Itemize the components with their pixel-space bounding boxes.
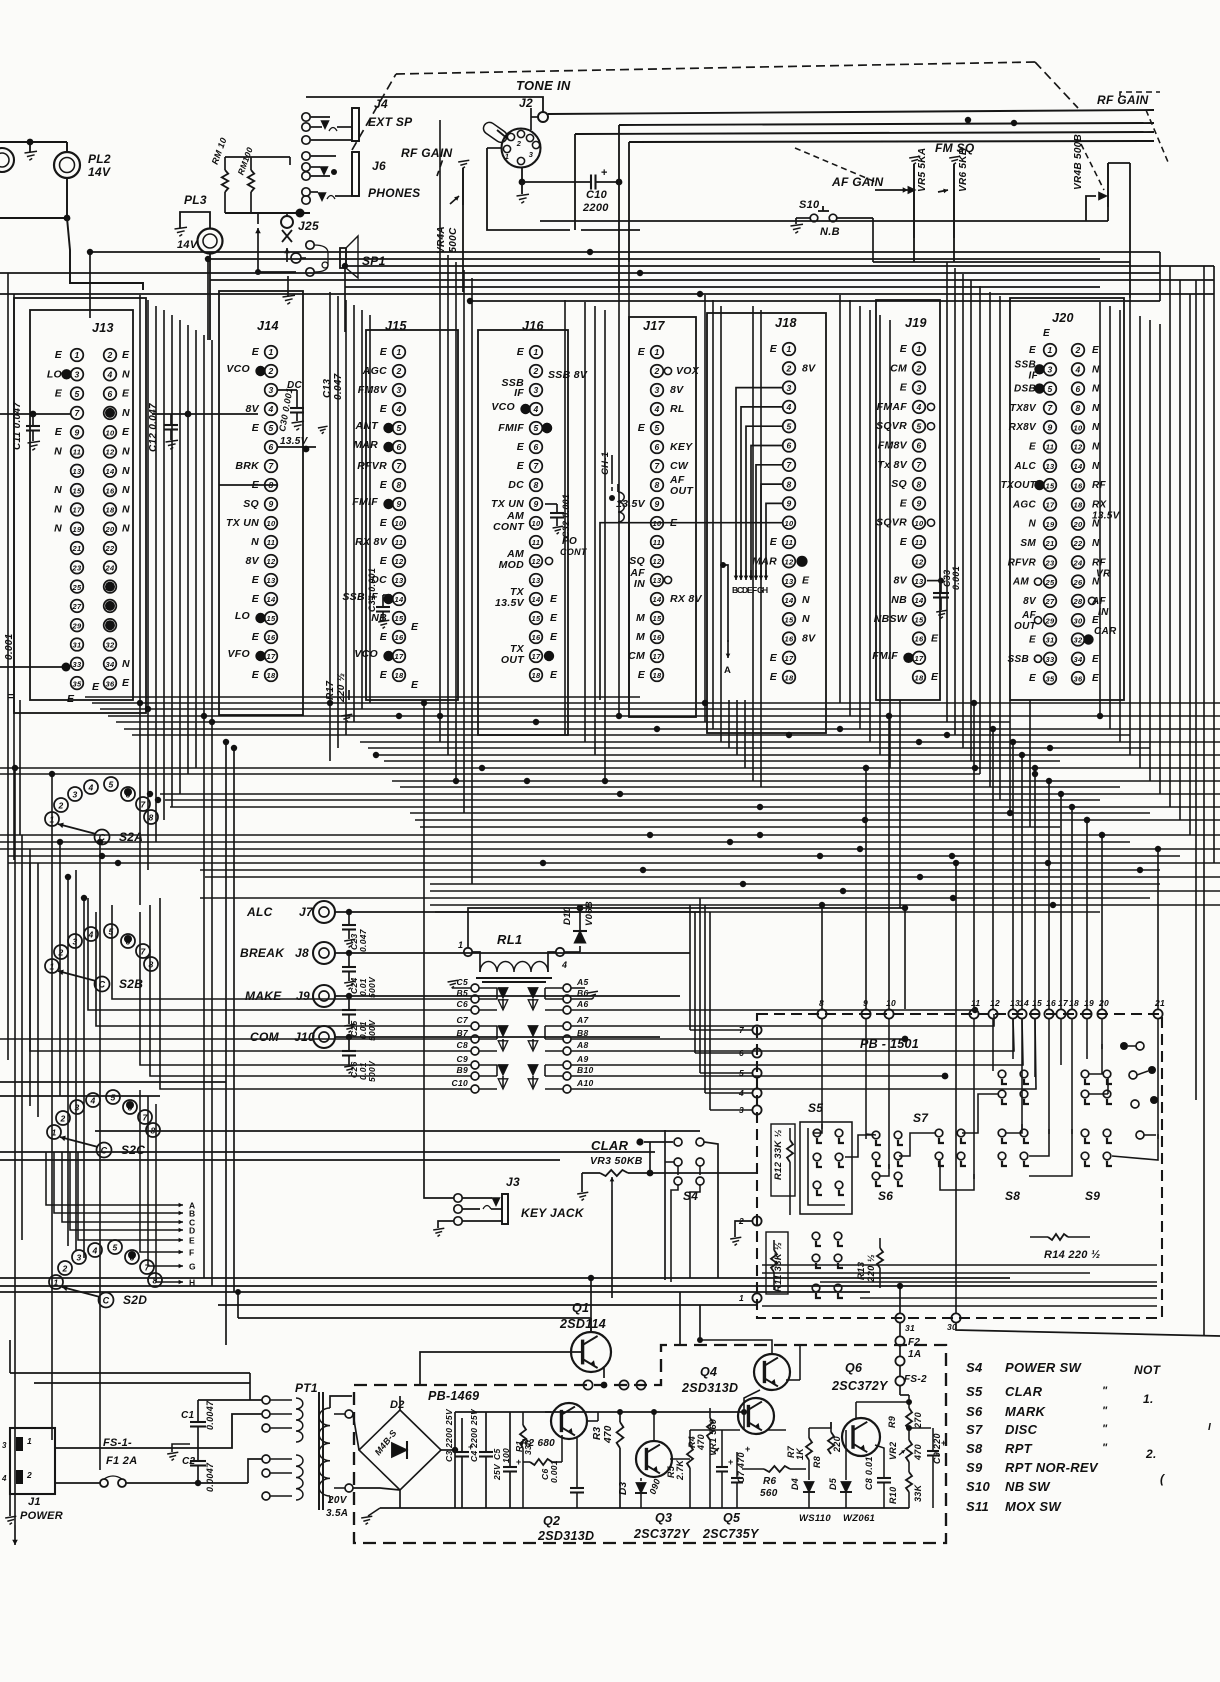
svg-text:16: 16	[1046, 998, 1056, 1008]
svg-text:S8: S8	[1005, 1189, 1020, 1203]
ground	[571, 998, 592, 1000]
svg-text:1: 1	[916, 344, 921, 354]
wire	[468, 908, 580, 947]
svg-text:N: N	[251, 536, 259, 548]
wire verticals between connectors	[139, 295, 141, 905]
svg-text:15: 15	[785, 615, 794, 624]
svg-text:S5: S5	[966, 1384, 983, 1399]
svg-text:1: 1	[739, 1293, 744, 1303]
capacitor C24	[335, 952, 690, 954]
svg-text:+: +	[516, 1457, 522, 1467]
svg-text:3: 3	[916, 383, 921, 393]
svg-text:DC: DC	[508, 479, 524, 491]
svg-text:J7: J7	[299, 905, 314, 919]
svg-text:VR2: VR2	[888, 1442, 898, 1460]
svg-text:E: E	[1043, 328, 1050, 339]
capacitor C26	[335, 1036, 660, 1038]
wire	[0, 1081, 226, 1083]
svg-text:": "	[1102, 1405, 1108, 1417]
svg-text:8V: 8V	[670, 384, 684, 396]
svg-text:RX8V: RX8V	[1009, 422, 1037, 433]
svg-text:8V: 8V	[246, 403, 260, 415]
svg-text:CAR: CAR	[1094, 626, 1117, 637]
svg-text:C12 0.047: C12 0.047	[148, 403, 159, 452]
svg-text:6: 6	[129, 1253, 134, 1263]
rotary switch S2B	[45, 959, 59, 973]
svg-text:25: 25	[1045, 578, 1055, 587]
svg-text:C8: C8	[457, 1040, 468, 1050]
svg-text:A9: A9	[576, 1054, 588, 1064]
svg-text:5: 5	[533, 423, 538, 433]
svg-text:RPT NOR-REV: RPT NOR-REV	[1005, 1460, 1099, 1475]
svg-text:VR6 5KB: VR6 5KB	[958, 148, 969, 192]
svg-text:30: 30	[1074, 616, 1083, 625]
svg-text:5: 5	[654, 423, 659, 433]
svg-text:1A: 1A	[908, 1349, 921, 1360]
svg-text:4: 4	[561, 960, 567, 970]
wire PB-1501 switch links	[813, 1124, 822, 1133]
svg-text:18: 18	[106, 506, 115, 515]
svg-text:6: 6	[125, 937, 130, 947]
svg-text:9: 9	[1047, 422, 1052, 432]
svg-text:18: 18	[1074, 501, 1083, 510]
connector J15	[366, 330, 458, 700]
svg-text:N: N	[1092, 403, 1100, 414]
svg-text:9: 9	[396, 499, 401, 509]
svg-text:3: 3	[786, 383, 791, 393]
svg-text:OUT: OUT	[670, 485, 694, 497]
svg-text:E: E	[1029, 635, 1036, 646]
svg-text:C7: C7	[457, 1015, 469, 1025]
wire bus band horizontal	[85, 696, 640, 698]
wire relay feed down	[904, 908, 906, 1009]
svg-text:R10: R10	[888, 1487, 898, 1504]
diode D10	[564, 951, 580, 953]
svg-text:1: 1	[458, 940, 463, 950]
svg-text:R14 220 ½: R14 220 ½	[1044, 1249, 1101, 1261]
svg-text:18: 18	[915, 673, 924, 682]
svg-text:A5: A5	[576, 977, 588, 987]
svg-text:32: 32	[1074, 636, 1083, 645]
svg-text:SSB 8V: SSB 8V	[548, 369, 588, 381]
wire	[306, 97, 543, 112]
svg-text:14: 14	[267, 595, 276, 604]
svg-text:4: 4	[1074, 365, 1080, 375]
svg-text:13.5V: 13.5V	[616, 498, 646, 510]
wire	[278, 446, 316, 448]
svg-text:2.: 2.	[1145, 1447, 1157, 1461]
svg-text:4: 4	[653, 404, 659, 414]
svg-text:14V: 14V	[177, 239, 199, 251]
capacitor C32	[545, 503, 557, 505]
svg-text:Q1: Q1	[572, 1301, 589, 1315]
svg-text:2: 2	[532, 366, 538, 376]
svg-text:J9: J9	[296, 989, 310, 1003]
svg-text:SQ: SQ	[629, 555, 645, 567]
svg-text:E: E	[550, 669, 558, 681]
svg-text:B8: B8	[577, 1028, 588, 1038]
svg-text:17: 17	[1058, 998, 1069, 1008]
svg-text:EXT SP: EXT SP	[368, 115, 413, 129]
wire PB-1501 left feeds	[690, 1029, 752, 1031]
svg-text:OUT: OUT	[1014, 621, 1037, 632]
relay contacts	[471, 984, 479, 992]
svg-text:TXOUT: TXOUT	[1001, 480, 1037, 491]
svg-text:+: +	[728, 1457, 734, 1467]
wire J18 pin10	[600, 523, 783, 700]
svg-text:5: 5	[74, 389, 79, 399]
wire	[225, 156, 251, 158]
svg-text:2SD313D: 2SD313D	[537, 1529, 594, 1543]
wire	[55, 1414, 262, 1448]
svg-text:26: 26	[1073, 578, 1083, 587]
switch S5 lower	[812, 1232, 820, 1240]
svg-text:C31 0.001: C31 0.001	[367, 568, 377, 612]
svg-text:AM: AM	[1012, 577, 1030, 588]
svg-text:0.001: 0.001	[951, 566, 961, 590]
svg-text:2: 2	[738, 1216, 744, 1226]
svg-text:33K: 33K	[913, 1483, 923, 1502]
svg-text:35: 35	[1046, 674, 1055, 683]
svg-text:2SC372Y: 2SC372Y	[633, 1527, 691, 1541]
svg-text:2: 2	[267, 366, 273, 376]
terminals PB-1501 left	[752, 1025, 761, 1034]
svg-text:E: E	[380, 555, 388, 567]
svg-text:2SC735Y: 2SC735Y	[702, 1527, 760, 1541]
svg-text:E: E	[92, 681, 100, 693]
svg-text:E: E	[252, 574, 260, 586]
svg-text:24: 24	[105, 564, 115, 573]
svg-text:18: 18	[267, 671, 276, 680]
svg-text:12: 12	[395, 557, 404, 566]
svg-text:8V: 8V	[802, 362, 816, 374]
svg-text:10: 10	[886, 998, 896, 1008]
svg-text:13.5V: 13.5V	[280, 436, 309, 447]
svg-text:J17: J17	[643, 319, 666, 333]
svg-text:N: N	[54, 503, 62, 515]
svg-text:VR4A: VR4A	[436, 226, 447, 254]
svg-text:3: 3	[396, 385, 401, 395]
svg-text:RF GAIN: RF GAIN	[401, 146, 452, 160]
svg-text:8: 8	[148, 813, 153, 823]
svg-text:5: 5	[112, 1243, 117, 1253]
svg-text:R8: R8	[812, 1456, 822, 1468]
ground	[9, 1494, 11, 1516]
diode D5	[841, 1482, 851, 1492]
fuse F2 1A FS-2	[895, 1336, 904, 1345]
svg-text:E: E	[55, 426, 63, 438]
connector J16	[478, 330, 568, 735]
svg-text:ALC: ALC	[246, 905, 273, 919]
wire	[0, 666, 70, 668]
svg-text:16: 16	[653, 633, 662, 642]
jack J4 EXT SP	[302, 113, 310, 121]
svg-text:32: 32	[106, 641, 115, 650]
svg-text:E: E	[252, 593, 260, 605]
svg-text:2: 2	[1074, 345, 1080, 355]
svg-text:E: E	[1092, 345, 1099, 356]
svg-text:27: 27	[72, 602, 82, 611]
svg-text:27: 27	[1045, 597, 1055, 606]
svg-text:16: 16	[1074, 481, 1083, 490]
svg-text:2: 2	[516, 139, 522, 148]
svg-text:E: E	[252, 631, 260, 643]
ground	[172, 1444, 190, 1452]
svg-text:R6: R6	[763, 1476, 777, 1487]
jack J6 PHONES	[302, 152, 310, 160]
svg-text:D10: D10	[562, 906, 573, 925]
svg-text:S6: S6	[966, 1404, 983, 1419]
svg-text:J1: J1	[28, 1496, 41, 1508]
svg-text:J18: J18	[775, 316, 797, 330]
svg-text:PB-1469: PB-1469	[428, 1389, 479, 1403]
svg-text:20: 20	[1098, 998, 1109, 1008]
wire right edge verticals	[1195, 280, 1197, 1100]
svg-text:C8 0.01: C8 0.01	[864, 1456, 874, 1490]
svg-text:6: 6	[125, 790, 130, 800]
svg-text:N: N	[54, 446, 62, 458]
svg-text:9: 9	[74, 427, 79, 437]
svg-text:31: 31	[1046, 636, 1055, 645]
svg-text:E: E	[1092, 673, 1099, 684]
svg-text:470: 470	[603, 1425, 614, 1444]
svg-text:6: 6	[127, 1103, 132, 1113]
svg-text:18: 18	[785, 673, 794, 682]
ground	[29, 142, 31, 152]
svg-text:12: 12	[785, 558, 794, 567]
svg-text:3: 3	[1047, 365, 1052, 375]
svg-text:11: 11	[395, 538, 403, 547]
svg-text:19: 19	[1084, 998, 1094, 1008]
svg-text:13: 13	[73, 467, 82, 476]
svg-text:B6: B6	[577, 988, 588, 998]
svg-text:E: E	[380, 631, 388, 643]
wire bottom-left feeders	[10, 1372, 250, 1374]
svg-text:3: 3	[76, 1253, 81, 1263]
svg-text:15: 15	[532, 614, 541, 623]
svg-text:3: 3	[74, 370, 79, 380]
svg-text:12: 12	[106, 448, 115, 457]
svg-text:C13: C13	[322, 379, 333, 398]
svg-text:E: E	[55, 349, 63, 361]
capacitor C11	[0, 413, 70, 415]
svg-text:31: 31	[73, 641, 82, 650]
wire	[353, 1414, 359, 1450]
svg-text:13: 13	[785, 577, 794, 586]
svg-text:2: 2	[26, 1470, 32, 1480]
svg-text:E: E	[638, 346, 646, 358]
svg-text:VR3 50KB: VR3 50KB	[590, 1155, 643, 1167]
svg-text:0.047: 0.047	[358, 928, 368, 952]
svg-text:8V: 8V	[802, 633, 816, 645]
svg-text:8: 8	[396, 480, 401, 490]
svg-text:3: 3	[2, 1441, 7, 1450]
svg-text:E: E	[550, 593, 558, 605]
svg-text:J2: J2	[519, 96, 533, 110]
svg-text:E: E	[1029, 442, 1036, 453]
svg-text:17: 17	[653, 652, 662, 661]
svg-text:J10: J10	[294, 1030, 315, 1044]
svg-text:5: 5	[110, 1093, 115, 1103]
svg-text:E: E	[252, 422, 260, 434]
svg-text:E: E	[517, 346, 525, 358]
svg-text:FMIF: FMIF	[352, 496, 378, 508]
capacitor C33	[927, 580, 941, 582]
svg-text:SQ: SQ	[891, 478, 907, 490]
capacitor C23	[335, 911, 700, 913]
svg-text:15: 15	[1046, 481, 1055, 490]
svg-text:4: 4	[87, 783, 93, 793]
svg-text:6: 6	[107, 389, 112, 399]
svg-text:KEY: KEY	[670, 441, 693, 453]
svg-text:MAR: MAR	[353, 439, 378, 451]
speaker SP1	[291, 253, 301, 263]
wire	[689, 905, 691, 1030]
svg-text:31: 31	[905, 1323, 915, 1333]
svg-text:J25: J25	[298, 219, 319, 233]
switch S4	[674, 1158, 682, 1166]
module PB-1501	[757, 1014, 1162, 1318]
dashed pointer RF GAIN	[1081, 144, 1104, 190]
svg-text:E: E	[122, 388, 130, 400]
connector J13	[30, 310, 133, 700]
svg-text:SQ: SQ	[243, 498, 259, 510]
capacitor C10	[521, 167, 523, 182]
svg-text:N.B: N.B	[820, 226, 840, 238]
wire	[89, 252, 91, 318]
svg-text:2: 2	[61, 1264, 67, 1274]
svg-text:0.0047: 0.0047	[205, 1400, 215, 1430]
svg-text:FMAF: FMAF	[877, 401, 908, 413]
svg-text:8V: 8V	[246, 555, 260, 567]
svg-text:15: 15	[395, 614, 404, 623]
svg-text:PL3: PL3	[184, 193, 207, 207]
svg-text:E: E	[122, 677, 130, 689]
svg-text:10: 10	[395, 519, 404, 528]
svg-text:Q4: Q4	[700, 1365, 717, 1379]
svg-text:CM: CM	[890, 362, 907, 374]
transistor Q3	[636, 1441, 672, 1477]
svg-text:18: 18	[1069, 998, 1079, 1008]
svg-text:MOD: MOD	[499, 559, 525, 571]
svg-text:470: 470	[696, 1434, 706, 1451]
svg-text:DSB: DSB	[1014, 384, 1036, 395]
svg-text:3: 3	[654, 385, 659, 395]
svg-text:3: 3	[72, 790, 77, 800]
ground	[452, 987, 471, 989]
svg-text:POWER: POWER	[20, 1510, 63, 1522]
svg-text:VOX: VOX	[676, 365, 700, 377]
svg-text:3: 3	[268, 385, 273, 395]
svg-text:3: 3	[529, 150, 534, 159]
svg-text:10: 10	[785, 519, 794, 528]
contacts right of S9	[1120, 1042, 1128, 1050]
svg-text:21: 21	[1154, 998, 1165, 1008]
svg-text:S9: S9	[966, 1460, 983, 1475]
svg-text:IN: IN	[634, 578, 645, 590]
svg-text:B10: B10	[577, 1065, 594, 1075]
svg-text:CONT: CONT	[493, 521, 525, 533]
resistor R14	[1048, 1234, 1068, 1240]
svg-text:ANT: ANT	[355, 420, 380, 432]
svg-text:E: E	[380, 669, 388, 681]
svg-text:E: E	[122, 426, 130, 438]
svg-text:SM: SM	[1020, 538, 1036, 549]
arrow A	[723, 565, 728, 600]
svg-text:E: E	[770, 671, 778, 683]
svg-text:J14: J14	[257, 319, 279, 333]
svg-text:14: 14	[785, 596, 794, 605]
svg-text:4: 4	[395, 404, 401, 414]
lamp PL1 (partial at edge)	[0, 148, 14, 172]
svg-text:E: E	[1029, 345, 1036, 356]
svg-text:6: 6	[396, 442, 401, 452]
svg-text:N: N	[54, 523, 62, 535]
wire	[424, 1131, 454, 1198]
ground	[368, 1508, 380, 1516]
svg-text:CONT: CONT	[560, 547, 588, 557]
svg-text:M: M	[636, 612, 645, 624]
svg-text:E: E	[122, 349, 130, 361]
svg-text:Q5: Q5	[723, 1511, 741, 1525]
svg-text:RFVR: RFVR	[1008, 557, 1037, 568]
svg-text:E: E	[770, 343, 778, 355]
svg-text:E: E	[931, 633, 939, 645]
svg-text:N: N	[802, 613, 810, 625]
svg-text:C: C	[101, 1146, 108, 1156]
svg-text:2SD114: 2SD114	[559, 1317, 606, 1331]
svg-text:11: 11	[785, 538, 793, 547]
svg-text:TX UN: TX UN	[226, 517, 259, 529]
svg-text:1: 1	[1047, 345, 1052, 355]
svg-text:18: 18	[532, 671, 541, 680]
svg-text:N: N	[122, 658, 130, 670]
svg-text:1: 1	[396, 347, 401, 357]
connector J1 POWER	[10, 1428, 55, 1494]
svg-text:1.: 1.	[1143, 1392, 1154, 1406]
svg-text:560: 560	[760, 1488, 778, 1499]
terminals PB-1501 bottom	[895, 1313, 904, 1322]
svg-text:5: 5	[268, 423, 273, 433]
svg-text:5: 5	[108, 780, 113, 790]
svg-text:11: 11	[1046, 443, 1054, 452]
dashed boundary TONE IN	[352, 74, 396, 150]
svg-text:6: 6	[533, 442, 538, 452]
svg-text:AGC: AGC	[362, 365, 387, 377]
svg-text:E: E	[252, 346, 260, 358]
svg-text:+: +	[941, 1438, 947, 1448]
svg-text:E: E	[380, 346, 388, 358]
svg-text:S10: S10	[966, 1479, 991, 1494]
svg-text:15: 15	[915, 615, 924, 624]
svg-text:E: E	[900, 343, 908, 355]
svg-text:22: 22	[1073, 539, 1083, 548]
svg-text:N: N	[122, 368, 130, 380]
svg-text:11: 11	[653, 538, 661, 547]
svg-text:J3: J3	[506, 1175, 520, 1189]
wire	[140, 1090, 146, 1252]
wire Q1 collector run	[238, 1317, 591, 1319]
svg-text:36: 36	[1074, 674, 1083, 683]
svg-text:17: 17	[1046, 501, 1055, 510]
svg-text:22: 22	[105, 544, 115, 553]
svg-text:VCO: VCO	[491, 401, 515, 413]
svg-text:20: 20	[105, 525, 115, 534]
svg-text:29: 29	[1045, 616, 1055, 625]
svg-text:2SD313D: 2SD313D	[681, 1381, 738, 1395]
svg-text:12: 12	[990, 998, 1000, 1008]
svg-text:E: E	[380, 517, 388, 529]
